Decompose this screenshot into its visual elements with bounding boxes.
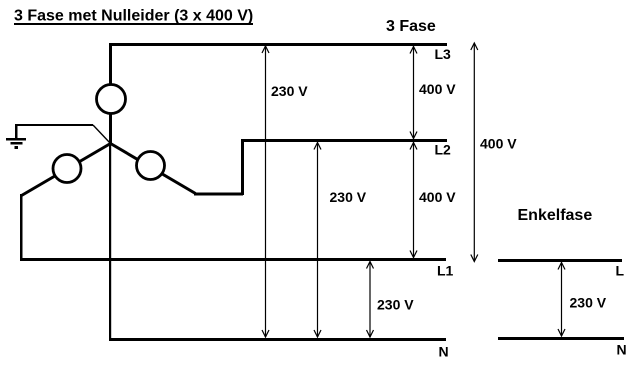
arrow: 400V tall L3 to L1 — [471, 43, 478, 262]
svg-text:230 V: 230 V — [377, 297, 414, 313]
wire: ground horizontal — [15, 124, 93, 126]
svg-text:L: L — [616, 263, 625, 279]
wire: vertical from L3 down to star point — [109, 43, 112, 144]
svg-text:400 V: 400 V — [419, 189, 456, 205]
svg-text:230 V: 230 V — [330, 189, 367, 205]
svg-text:N: N — [439, 344, 449, 360]
enkelfase bus line L — [498, 259, 622, 262]
wire: right diagonal from star point — [111, 144, 196, 194]
wire: left vertical down to L1 — [20, 194, 23, 260]
bus line N — [109, 338, 446, 341]
arrow: 400V L3 to L2 — [410, 47, 417, 139]
svg-text:400 V: 400 V — [419, 81, 456, 97]
svg-text:N: N — [617, 342, 627, 358]
bus line L1 — [20, 258, 446, 261]
arrow: 230V L3 to N — [262, 46, 269, 337]
wire: left diagonal from star point — [22, 144, 111, 196]
wire: vertical from star point down to N — [109, 143, 111, 340]
svg-text:Enkelfase: Enkelfase — [518, 207, 593, 224]
wire: thin diagonal from ground wire to star point — [93, 125, 111, 144]
svg-text:3 Fase: 3 Fase — [386, 18, 436, 35]
bus line L3 — [109, 43, 447, 46]
svg-text:L3: L3 — [435, 46, 452, 62]
coil left (circle) — [53, 155, 81, 183]
wire: step vertical up to L2 — [241, 139, 244, 195]
svg-text:L1: L1 — [437, 263, 454, 279]
coil top (circle) — [97, 85, 126, 114]
arrow: 230V L2 to N — [314, 143, 321, 338]
arrow: 230V L1 to N — [367, 262, 374, 338]
enkelfase bus line N — [498, 337, 624, 340]
svg-text:400 V: 400 V — [480, 136, 517, 152]
svg-text:3 Fase met Nulleider (3 x 400: 3 Fase met Nulleider (3 x 400 V) — [14, 8, 253, 25]
svg-text:L2: L2 — [435, 142, 452, 158]
svg-text:230 V: 230 V — [570, 295, 607, 311]
title: 3 Fase met Nulleider (3 x 400 V) — [14, 8, 253, 26]
bus line L2 — [241, 139, 447, 142]
wire: right horizontal — [194, 193, 243, 196]
svg-text:230 V: 230 V — [271, 83, 308, 99]
coil right (circle) — [137, 152, 165, 180]
ground symbol — [6, 124, 26, 149]
arrow: 400V L2 to L1 — [410, 143, 417, 258]
arrow: 230V enkelfase L to N — [558, 263, 565, 337]
